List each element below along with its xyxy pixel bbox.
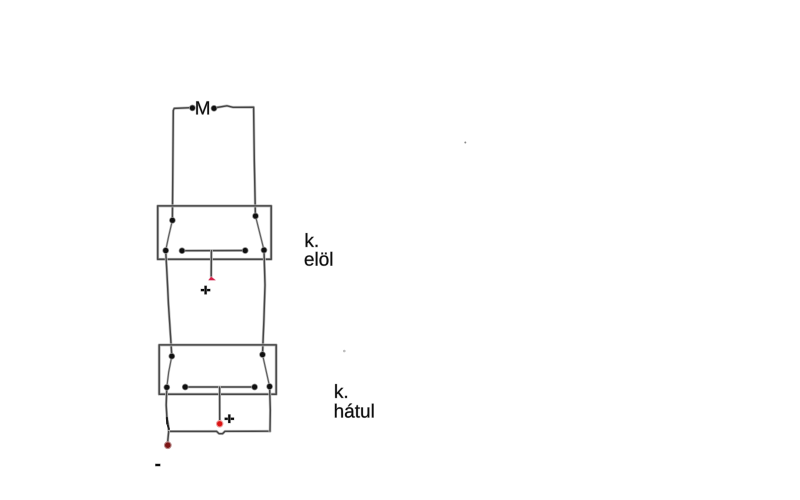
contact dot: k.elol lower-left inner bbox=[179, 248, 185, 254]
motor label M bbox=[196, 101, 209, 114]
plus terminal dot (red) of k.hatul bbox=[217, 421, 223, 427]
contact dot: k.elol lower-right inner bbox=[242, 248, 248, 254]
contact dot: k.hatul lower-right outer bbox=[267, 384, 273, 390]
contact dot: k.hatul lower-left outer bbox=[164, 384, 170, 390]
switch arm: k.hatul left bbox=[167, 356, 172, 387]
switch arm: k.elol left bbox=[166, 220, 173, 250]
contact dot: k.elol lower-right outer bbox=[261, 247, 267, 253]
wire: motor left terminal down to switch k.elol upper-left contact bbox=[172, 108, 190, 220]
bridge bar: k.hatul common bbox=[185, 386, 254, 389]
wire: k.hatul lower-left down to junction bbox=[166, 387, 169, 431]
wire: k.elol lower-left to k.hatul upper-left bbox=[166, 251, 172, 357]
label elol bbox=[305, 252, 333, 266]
label hatul bbox=[335, 404, 374, 418]
wire: k.elol lower-right to k.hatul upper-right bbox=[263, 250, 266, 355]
contact dot: k.elol upper-right bbox=[253, 213, 259, 219]
contact dot: k.hatul lower-left inner bbox=[182, 384, 188, 390]
switch arm: k.elol right bbox=[256, 216, 265, 250]
contact dot: k.hatul lower-right inner bbox=[252, 384, 258, 390]
contact dot: k.hatul upper-left bbox=[169, 353, 175, 359]
wire: k.hatul common stem to plus terminal bbox=[218, 387, 221, 421]
bridge bar: k.elol common bbox=[182, 249, 245, 252]
contact dot: k.elol upper-left bbox=[169, 217, 175, 223]
contact dot: k.elol lower-left outer bbox=[163, 248, 169, 254]
wire: motor right terminal down to switch k.elol upper-right contact bbox=[217, 106, 256, 216]
switch arm: k.hatul right bbox=[263, 355, 270, 387]
overlap tick 2 on left wire bbox=[168, 426, 169, 429]
wire: junction down to minus terminal bbox=[168, 431, 169, 443]
bottom horizontal wire from junction to right branch bbox=[169, 431, 270, 434]
plus terminal marker (red triangle) of k.elol bbox=[209, 277, 216, 280]
wire: k.hatul lower-right down to bottom wire bbox=[268, 387, 271, 432]
switch box k.elol bbox=[158, 206, 272, 259]
stray speck near hatul bbox=[343, 350, 346, 353]
wire: k.elol common stem to plus terminal bbox=[210, 251, 213, 277]
plus label of k.elol bbox=[201, 286, 210, 295]
minus label bbox=[155, 464, 160, 466]
minus terminal dot (dark red) bbox=[164, 442, 171, 449]
switch box k.hatul bbox=[159, 345, 276, 394]
label k. (elol) bbox=[306, 233, 318, 247]
motor terminal dot (right) bbox=[211, 105, 217, 111]
overlap tick on left wire bbox=[166, 418, 168, 424]
contact dot: k.hatul upper-right bbox=[260, 352, 266, 358]
motor terminal dot (left) bbox=[189, 105, 195, 111]
label k. (hatul) bbox=[335, 384, 347, 398]
stray speck upper right bbox=[464, 142, 466, 144]
plus label of k.hatul bbox=[225, 415, 234, 424]
